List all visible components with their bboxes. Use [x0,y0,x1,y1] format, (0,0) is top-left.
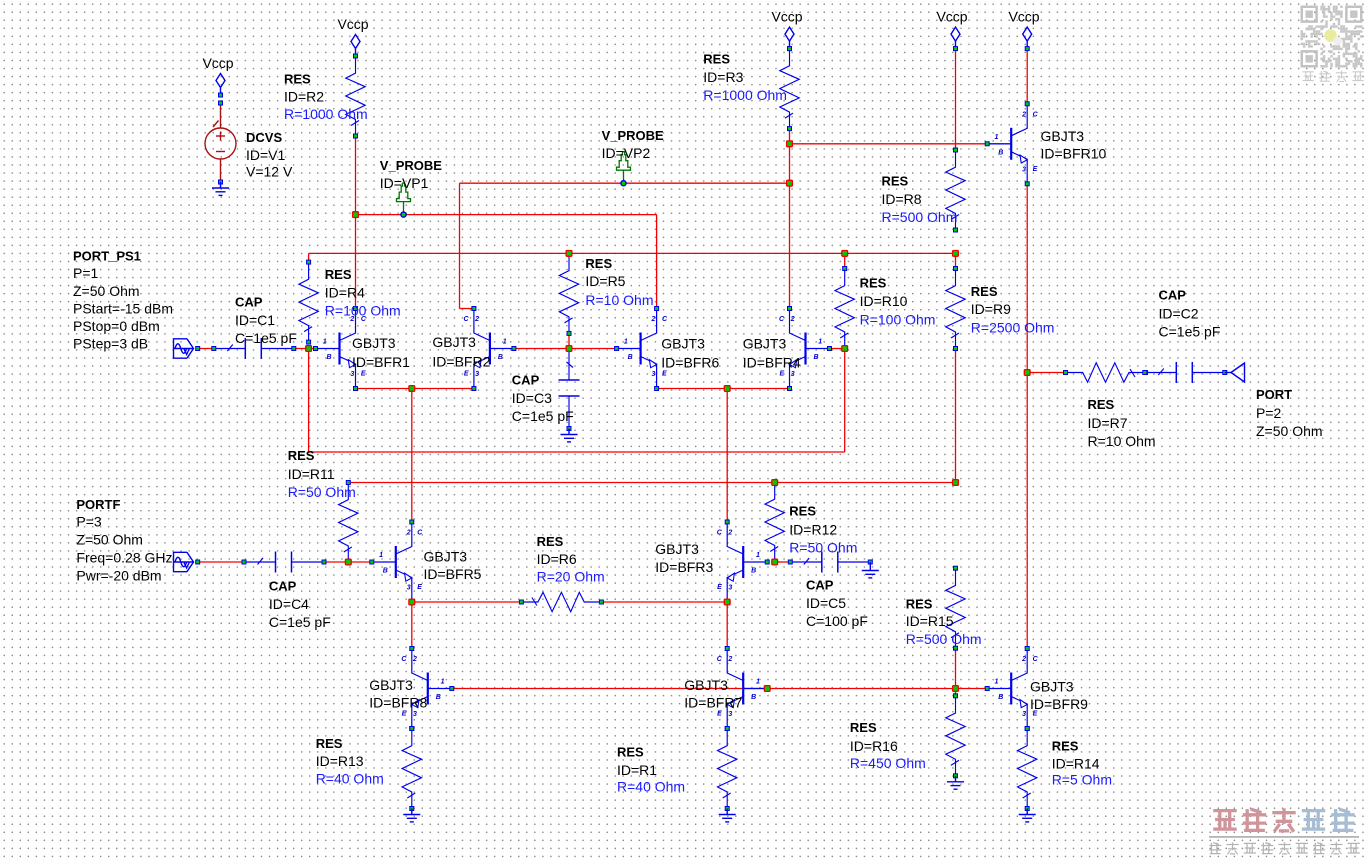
wire BFR5 emitter to R6 [412,601,522,603]
svg-text:ID=R15: ID=R15 [906,613,954,629]
wire BFR2 base to BFR6 base [514,348,617,350]
wire bus to R4 [308,253,310,262]
junction node J15 [772,559,778,565]
junction node J12 [345,559,351,565]
svg-text:V_PROBE: V_PROBE [602,128,664,143]
svg-text:ID=BFR9: ID=BFR9 [1030,696,1088,712]
wire output tap to R7 [1027,372,1065,374]
junction node J3 [842,251,848,257]
svg-text:GBJT3: GBJT3 [655,541,699,557]
label R5 [585,256,653,308]
svg-text:ID=BFR1: ID=BFR1 [352,354,410,370]
svg-text:R=2500 Ohm: R=2500 Ohm [971,320,1055,336]
svg-text:P=3: P=3 [76,514,102,530]
junction node J16 [772,480,778,486]
label R14 [1052,739,1112,788]
capacitor C4 [242,552,326,573]
svg-text:ID=BFR10: ID=BFR10 [1041,145,1107,161]
junction node J9 [724,386,730,392]
svg-text:Z=50 Ohm: Z=50 Ohm [1256,423,1323,439]
transistor BFR7 [717,647,769,731]
svg-text:PStop=0 dBm: PStop=0 dBm [73,318,160,334]
label R10 [860,275,936,327]
svg-text:CAP: CAP [806,578,834,593]
watermark underline [1209,836,1359,838]
wire R5 to node [568,333,570,348]
svg-text:V_PROBE: V_PROBE [380,158,442,173]
svg-text:ID=R6: ID=R6 [537,551,577,567]
wire BFR10 emitter down to BFR9 [1026,184,1028,649]
svg-text:ID=R1: ID=R1 [617,762,657,778]
ground under R1 [719,809,736,822]
label PORT_PS1 [73,249,173,352]
svg-text:PStep=3 dB: PStep=3 dB [73,336,148,352]
resistor R6 [519,592,603,611]
svg-text:R=10 Ohm: R=10 Ohm [1088,433,1156,449]
svg-text:RES: RES [288,448,315,463]
svg-text:R=1000 Ohm: R=1000 Ohm [703,87,787,103]
wire BFR4 base [830,348,845,350]
svg-text:GBJT3: GBJT3 [424,549,468,565]
watermark subtitle [1209,843,1221,854]
wire R2 to BFR1 collector [355,136,357,309]
svg-text:R=450 Ohm: R=450 Ohm [850,755,926,771]
label PORT2 [1256,387,1323,439]
svg-text:R=1000 Ohm: R=1000 Ohm [284,106,368,122]
wire BFR1-BFR2 emitters [356,388,474,390]
wire bias down [308,349,310,453]
svg-text:ID=C3: ID=C3 [512,390,552,406]
svg-text:RES: RES [617,745,644,760]
resistor R8 [946,148,965,232]
svg-text:ID=BFR2: ID=BFR2 [432,354,490,370]
svg-text:ID=R12: ID=R12 [789,522,837,538]
wire R9 down [955,349,957,483]
wire base bus BFR8-BFR7-BFR9 [452,688,987,690]
port PORT P=2 symbol [1231,363,1245,382]
svg-text:PORT: PORT [1256,387,1292,402]
node VP2 tap [621,181,626,186]
label R15 [906,597,982,647]
resistor R5 [559,251,578,335]
svg-text:Vccp: Vccp [202,55,233,71]
watermark logo text [1213,811,1236,830]
wire bias up to BFR4 base [844,349,846,453]
svg-text:ID=R14: ID=R14 [1052,755,1100,771]
svg-text:R=50 Ohm: R=50 Ohm [288,484,356,500]
svg-text:R=40 Ohm: R=40 Ohm [617,779,685,795]
capacitor C1 [212,338,296,359]
label BFR8 [369,677,427,710]
svg-text:R=100 Ohm: R=100 Ohm [325,303,401,319]
resistor R12 [765,480,784,564]
svg-text:C=1e5 pF: C=1e5 pF [1159,323,1221,339]
watermark QR code [1301,6,1363,68]
resistor R11 [339,481,358,565]
ground under V1 [212,182,229,195]
resistor R2 [346,54,365,138]
svg-text:ID=VP1: ID=VP1 [380,175,429,191]
svg-text:RES: RES [906,597,933,612]
label BFR4 [743,335,801,370]
resistor R16 [946,694,965,778]
svg-text:ID=R8: ID=R8 [882,191,922,207]
svg-text:GBJT3: GBJT3 [1041,128,1085,144]
transistor BFR8 [401,647,453,731]
label C5 [806,578,868,630]
svg-text:GBJT3: GBJT3 [432,334,476,350]
svg-text:Z=50 Ohm: Z=50 Ohm [73,283,140,299]
svg-text:ID=R3: ID=R3 [703,69,743,85]
watermark wechat caption [1303,72,1314,81]
label BFR7 [684,677,742,710]
transistor BFR1 [314,307,367,391]
svg-text:ID=BFR7: ID=BFR7 [684,694,742,710]
transistor BFR10 [985,102,1038,186]
svg-text:Z=50 Ohm: Z=50 Ohm [76,532,143,548]
label V1 [246,130,293,180]
junction node J18 [764,686,770,692]
label PORTF [76,497,172,584]
svg-text:GBJT3: GBJT3 [1030,679,1074,695]
resistor R14 [1017,727,1036,811]
label R8 [882,173,958,225]
svg-text:R=5 Ohm: R=5 Ohm [1052,772,1112,788]
wire port1 to C1 [198,348,214,350]
wire C5 to ground [869,562,871,565]
junction node J1 [353,212,359,218]
resistor R1 [718,727,737,811]
svg-text:RES: RES [585,256,612,271]
label R11 [288,448,356,500]
svg-text:R=40 Ohm: R=40 Ohm [316,771,384,787]
svg-text:ID=R5: ID=R5 [585,273,625,289]
svg-text:CAP: CAP [512,373,540,388]
junction node J10 [787,141,793,147]
Vccp symbol above R2 [351,35,360,59]
svg-text:ID=V1: ID=V1 [246,147,286,163]
svg-text:RES: RES [850,720,877,735]
svg-text:RES: RES [537,534,564,549]
svg-text:C=100 pF: C=100 pF [806,613,868,629]
label R12 [789,504,857,556]
ground under R16 [947,776,964,789]
wire R12 to C5 [775,561,791,563]
label R3 [703,51,787,103]
svg-text:Vccp: Vccp [771,9,802,25]
svg-text:ID=C1: ID=C1 [235,312,275,328]
junction node J19 [953,686,959,692]
wire C4 to BFR5 base [324,561,372,563]
svg-text:Vccp: Vccp [337,16,368,32]
svg-text:RES: RES [284,72,311,87]
wire BFR2 collector up [459,183,461,308]
svg-text:GBJT3: GBJT3 [369,677,413,693]
junction node J11 [787,180,793,186]
label R1 [617,745,685,795]
wire bias horizontal [309,451,845,453]
wire bus to R9 [955,253,957,268]
capacitor C5 [788,552,872,573]
svg-text:RES: RES [789,504,816,519]
svg-text:RES: RES [860,275,887,290]
svg-text:ID=BFR8: ID=BFR8 [369,694,427,710]
svg-text:Freq=0.28 GHz: Freq=0.28 GHz [76,550,172,566]
svg-text:ID=BFR6: ID=BFR6 [661,355,719,371]
label C4 [269,579,331,631]
label C3 [512,373,574,425]
svg-text:C=1e5 pF: C=1e5 pF [512,408,574,424]
junction node J13 [409,599,415,605]
label BFR9 [1030,679,1088,712]
svg-text:ID=VP2: ID=VP2 [602,145,651,161]
svg-text:RES: RES [325,267,352,282]
Vccp symbol above V1 [216,74,225,98]
label BFR5 [424,549,482,583]
node VP1 tap [401,212,406,217]
junction node J8 [409,386,415,392]
Vccp symbol above BFR10 [1023,27,1032,51]
transistor BFR6 [615,307,668,391]
port PORTF symbol [174,552,194,571]
svg-text:CAP: CAP [269,579,297,594]
wire port3 to C4 [198,561,244,563]
capacitor C2 [1143,362,1227,383]
svg-text:ID=R7: ID=R7 [1088,415,1128,431]
svg-text:ID=R16: ID=R16 [850,738,898,754]
wire bus to R10 [844,253,846,268]
transistor BFR9 [985,647,1038,731]
transistor BFR2 [463,307,515,391]
wire Vccp to R8 [955,49,957,150]
wire down to BFR7 collector [726,602,728,649]
svg-text:GBJT3: GBJT3 [684,677,728,693]
wire BFR6-BFR4 emitters [657,388,790,390]
ground under C3 [561,429,578,442]
svg-text:Vccp: Vccp [1008,9,1039,25]
voltage source V1 (DCVS) [205,103,236,182]
svg-text:R=100 Ohm: R=100 Ohm [860,312,936,328]
wire down to BFR5 collector [411,389,413,523]
svg-text:RES: RES [971,284,998,299]
port PORT_PS1 symbol [174,339,194,358]
wire C1 to BFR1 base [294,348,316,350]
wire to BFR10 base [790,143,988,145]
wire net VC1 horizontal [356,214,657,216]
svg-text:ID=R9: ID=R9 [971,301,1011,317]
svg-text:RES: RES [1088,397,1115,412]
label BFR2 [432,334,490,370]
svg-text:RES: RES [882,173,909,188]
svg-text:PStart=-15 dBm: PStart=-15 dBm [73,300,173,316]
svg-text:P=1: P=1 [73,265,99,281]
junction node J17 [953,480,959,486]
junction node J20 [1024,370,1030,376]
svg-text:Vccp: Vccp [936,9,967,25]
resistor R7 [1064,363,1148,382]
svg-text:C=1e5 pF: C=1e5 pF [269,614,331,630]
label BFR1 [352,335,410,370]
label R9 [971,284,1055,336]
label R4 [325,267,401,319]
svg-text:V=12 V: V=12 V [246,164,293,180]
svg-text:RES: RES [316,736,343,751]
label C2 [1159,288,1221,340]
svg-text:P=2: P=2 [1256,405,1282,421]
transistor BFR5 [370,520,423,604]
svg-text:ID=R13: ID=R13 [316,753,364,769]
label C1 [235,294,297,346]
svg-text:ID=R2: ID=R2 [284,89,324,105]
wire R3 down to BFR4 collector [789,129,791,309]
label R7 [1088,397,1156,449]
label VP2 [602,128,664,161]
svg-text:C=1e5 pF: C=1e5 pF [235,330,297,346]
voltage probe VP2 symbol [617,152,631,184]
label R16 [850,720,926,771]
ground at C5 [862,565,879,578]
junction node J14 [724,599,730,605]
Vccp symbol above R8 [951,27,960,51]
label R13 [316,736,384,787]
junction node J4 [953,251,959,257]
svg-text:R=10 Ohm: R=10 Ohm [585,292,653,308]
svg-text:GBJT3: GBJT3 [352,335,396,351]
resistor R10 [835,267,854,351]
label R2 [284,72,368,122]
svg-text:PORT_PS1: PORT_PS1 [73,249,141,264]
wire down to BFR3 collector [726,389,728,523]
resistor R13 [402,727,421,811]
resistor R4 [299,260,318,344]
transistor BFR3 [717,520,769,604]
capacitor C3 [559,347,580,431]
svg-text:ID=R4: ID=R4 [325,285,365,301]
svg-text:PORTF: PORTF [76,497,120,512]
junction node J7 [842,346,848,352]
label R6 [537,534,605,585]
label BFR3 [655,541,713,575]
svg-text:CAP: CAP [235,294,263,309]
resistor R15 [946,566,965,650]
svg-text:ID=R10: ID=R10 [860,293,908,309]
svg-text:GBJT3: GBJT3 [661,335,705,351]
svg-text:R=500 Ohm: R=500 Ohm [906,631,982,647]
svg-text:ID=BFR5: ID=BFR5 [424,566,482,582]
svg-text:ID=BFR3: ID=BFR3 [655,559,713,575]
svg-text:ID=BFR4: ID=BFR4 [743,355,801,371]
svg-text:R=50 Ohm: R=50 Ohm [789,539,857,555]
svg-text:DCVS: DCVS [246,130,282,145]
resistor R9 [946,267,965,351]
svg-text:RES: RES [1052,739,1079,754]
svg-text:ID=R11: ID=R11 [288,466,335,482]
svg-text:ID=C5: ID=C5 [806,595,846,611]
wire to BFR6 collector [656,215,658,309]
svg-text:GBJT3: GBJT3 [743,335,787,351]
junction node J6 [566,346,572,352]
svg-text:ID=C4: ID=C4 [269,596,309,612]
wire feedback R11-R9 [348,482,955,484]
wire down to BFR8 collector [411,602,413,649]
wire R15 to R16 [955,648,957,696]
ground under R13 [403,809,420,822]
label BFR10 [1041,128,1107,161]
svg-text:CAP: CAP [1159,288,1187,303]
wire supply bus [309,252,956,254]
wire BFR2 collector jog [460,308,474,310]
svg-text:RES: RES [703,51,730,66]
label VP1 [380,158,442,191]
svg-text:Pwr=-20 dBm: Pwr=-20 dBm [76,567,161,583]
junction node J5 [306,346,312,352]
junction node J2 [566,251,572,257]
resistor R3 [780,47,799,131]
Vccp symbol above R3 [785,27,794,51]
voltage probe VP1 symbol [397,183,411,215]
transistor BFR4 [779,307,831,391]
svg-text:R=500 Ohm: R=500 Ohm [882,209,958,225]
wire Vccp to BFR10 collector [1026,49,1028,104]
wire R6 to BFR3 emitter [601,601,727,603]
wire net VC2 horizontal [460,182,790,184]
svg-text:R=20 Ohm: R=20 Ohm [537,569,605,585]
label BFR6 [661,335,719,370]
ground under R14 [1019,809,1036,822]
svg-text:ID=C2: ID=C2 [1159,305,1199,321]
